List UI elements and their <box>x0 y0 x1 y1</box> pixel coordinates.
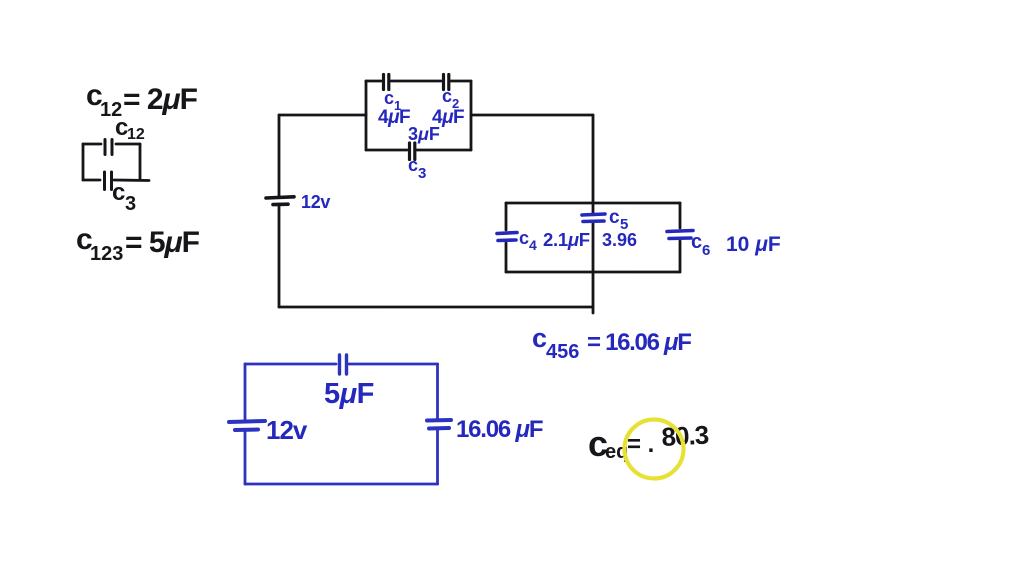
capacitor 5uF (equivalent loop top) <box>340 355 347 374</box>
label C3 <box>112 179 136 215</box>
svg-text:3: 3 <box>125 193 136 215</box>
label C4 2.1uF <box>519 228 590 253</box>
label C6 10uF <box>691 231 781 259</box>
capacitor C4 <box>497 233 517 241</box>
svg-text:= .: = . <box>627 431 654 458</box>
wire main loop left vertical (top half) <box>278 115 281 197</box>
svg-text:c: c <box>609 207 620 228</box>
wire right vertical lower through box to bottom <box>592 223 595 313</box>
svg-text:c: c <box>532 323 547 353</box>
svg-text:123: 123 <box>90 243 123 265</box>
capacitor C2 <box>444 75 449 90</box>
svg-text:= 16.06 μF: = 16.06 μF <box>587 329 691 356</box>
svg-text:c: c <box>519 228 529 248</box>
svg-text:c: c <box>442 86 452 106</box>
svg-text:12: 12 <box>127 126 145 143</box>
value label C456 = 16.06 uF <box>532 323 691 363</box>
wire equivalent loop outline (blue circuit) <box>245 364 438 484</box>
battery B1 12V <box>266 197 294 205</box>
label C1 4uF <box>378 88 410 128</box>
svg-text:3: 3 <box>418 165 426 182</box>
label C3 <box>408 155 426 182</box>
svg-text:c: c <box>691 231 702 253</box>
wire top left horizontal <box>279 114 366 117</box>
wire main loop left vertical (bottom half) <box>278 204 281 307</box>
svg-text:3μF: 3μF <box>408 124 440 144</box>
label C2 4uF <box>432 86 464 128</box>
svg-text:2.1μF: 2.1μF <box>543 229 590 250</box>
wire small series loop (left, right, partial top/bottom edges) <box>83 144 149 181</box>
svg-text:6: 6 <box>702 242 710 259</box>
svg-text:c: c <box>384 88 394 108</box>
svg-text:16.06 μF: 16.06 μF <box>456 416 543 443</box>
label Ceq = . <box>588 423 654 464</box>
svg-text:10 μF: 10 μF <box>726 233 781 256</box>
highlight circle around result <box>625 420 684 479</box>
capacitor C5 <box>582 214 605 222</box>
label C5 3.96 <box>602 207 637 250</box>
capacitor Ceq 16.06uF (equivalent loop right) <box>427 420 451 429</box>
svg-text:c: c <box>408 155 418 175</box>
label C12 <box>115 114 145 143</box>
svg-text:4: 4 <box>529 237 537 253</box>
wire parallel box C4 C5 C6 outline <box>506 203 680 272</box>
capacitor C3 <box>410 143 415 160</box>
battery B2 12V (equivalent loop) <box>229 421 265 430</box>
svg-text:456: 456 <box>546 341 579 363</box>
wire top right horizontal <box>471 114 593 117</box>
capacitor C12 (small loop top) <box>105 140 112 155</box>
svg-text:12v: 12v <box>266 415 308 445</box>
wire right vertical upper <box>592 115 595 214</box>
svg-text:c: c <box>112 179 125 206</box>
wire parallel box C1 C2 C3 outline <box>366 81 471 150</box>
capacitor C1 <box>384 75 389 90</box>
svg-text:3.96: 3.96 <box>602 230 637 250</box>
value label C12 = 2uF <box>86 79 198 121</box>
value label C123 = 5uF <box>76 223 200 265</box>
svg-text:4μF: 4μF <box>378 107 410 128</box>
svg-text:12v: 12v <box>301 192 330 212</box>
capacitor C3 (small loop bottom) <box>105 172 112 190</box>
svg-text:5μF: 5μF <box>324 378 374 410</box>
wire bottom horizontal <box>279 306 593 309</box>
svg-text:= 2μF: = 2μF <box>123 83 198 116</box>
svg-text:= 5μF: = 5μF <box>125 226 200 259</box>
capacitor C6 <box>667 231 693 239</box>
